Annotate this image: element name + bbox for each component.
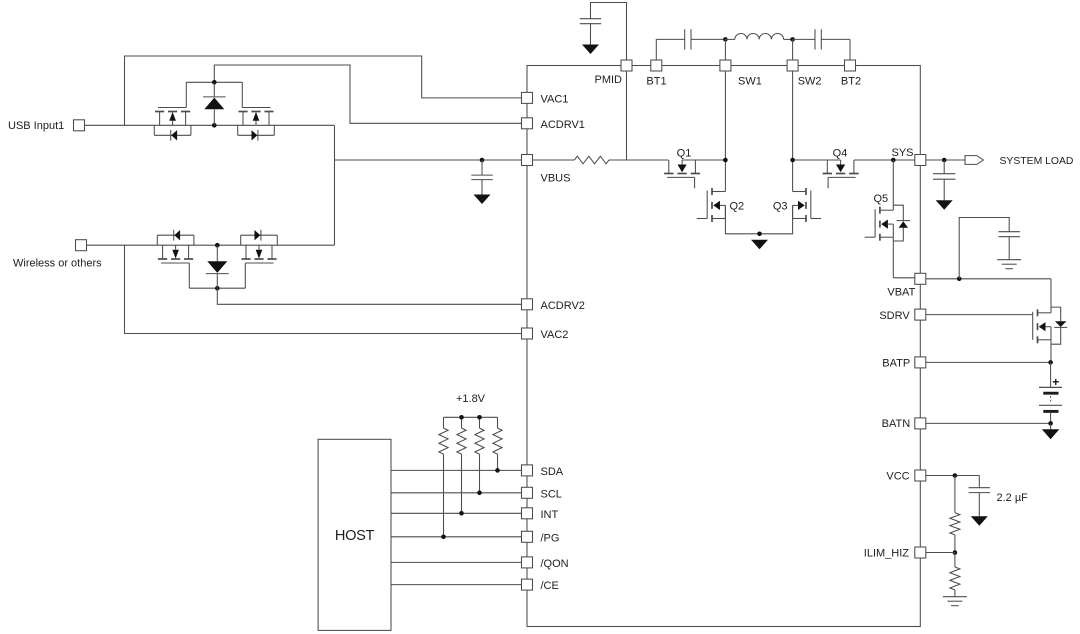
svg-text:Q2: Q2 (730, 201, 745, 213)
svg-text:BT2: BT2 (841, 75, 861, 87)
svg-text:BT1: BT1 (646, 75, 666, 87)
svg-text:HOST: HOST (335, 528, 375, 544)
svg-text:USB Input1: USB Input1 (8, 120, 64, 132)
svg-text:BATN: BATN (882, 418, 911, 430)
svg-text:ACDRV1: ACDRV1 (541, 119, 585, 131)
svg-text:INT: INT (541, 509, 559, 521)
svg-text:SDRV: SDRV (879, 310, 910, 322)
svg-text:Wireless or others: Wireless or others (13, 258, 102, 270)
svg-text:SW1: SW1 (738, 75, 762, 87)
svg-text:SYS: SYS (891, 147, 913, 159)
svg-text:/QON: /QON (541, 558, 569, 570)
svg-text:VCC: VCC (886, 470, 909, 482)
svg-text:VAC1: VAC1 (541, 94, 569, 106)
svg-text:Q5: Q5 (874, 193, 889, 205)
svg-text:ACDRV2: ACDRV2 (541, 300, 585, 312)
svg-text:ILIM_HIZ: ILIM_HIZ (864, 548, 910, 560)
svg-text:SCL: SCL (541, 488, 562, 500)
svg-text:VBAT: VBAT (887, 287, 915, 299)
svg-text:+: + (1052, 375, 1059, 389)
svg-text:BATP: BATP (882, 358, 910, 370)
svg-text:Q1: Q1 (677, 148, 692, 160)
svg-text:VAC2: VAC2 (541, 329, 569, 341)
svg-text:SDA: SDA (541, 466, 564, 478)
svg-text:/PG: /PG (541, 532, 560, 544)
svg-text:SW2: SW2 (798, 75, 822, 87)
svg-text:Q4: Q4 (833, 148, 848, 160)
svg-text:PMID: PMID (595, 74, 623, 86)
svg-text:SYSTEM LOAD: SYSTEM LOAD (1000, 156, 1074, 167)
svg-text:+1.8V: +1.8V (456, 393, 486, 405)
svg-text:2.2 µF: 2.2 µF (997, 492, 1029, 504)
svg-text:VBUS: VBUS (541, 173, 571, 185)
svg-text:Q3: Q3 (773, 201, 788, 213)
svg-text:/CE: /CE (541, 580, 559, 592)
